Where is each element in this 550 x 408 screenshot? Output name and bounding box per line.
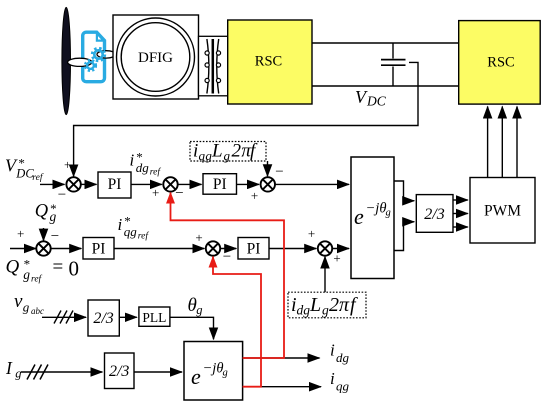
wire 23b to dq2 xyxy=(134,371,182,373)
svg-text:RSC: RSC xyxy=(255,54,282,70)
red feedback idg wire xyxy=(171,193,285,358)
wire PI1 to S2 xyxy=(131,183,162,185)
Vdc sense wire xyxy=(74,62,418,176)
wire Qg to S0 xyxy=(43,228,45,241)
slip-ring core bar xyxy=(212,39,215,94)
wire idg out xyxy=(243,357,320,359)
svg-text:PWM: PWM xyxy=(484,203,521,220)
wire Ig to 23b xyxy=(21,371,102,373)
dq inverse transform block xyxy=(351,157,394,279)
DFIG machine box xyxy=(113,15,199,99)
controller PI2 xyxy=(203,174,237,195)
feedforward box iqgLg2pif xyxy=(190,142,266,162)
slip-ring box xyxy=(199,36,228,96)
gearbox icon body xyxy=(83,32,105,81)
svg-text:−: − xyxy=(175,186,183,202)
svg-text:Q*g: Q*g xyxy=(35,201,57,224)
DFIG rotor circle xyxy=(121,23,190,92)
wire feedforward to S3 xyxy=(267,161,269,176)
wire dq to 23 block upper xyxy=(394,181,414,201)
wire 23a to PLL xyxy=(119,316,137,318)
svg-text:PI: PI xyxy=(213,176,227,193)
right brush arc xyxy=(217,39,219,94)
wire PI2 to S3 xyxy=(237,183,260,185)
summing junction S2 xyxy=(163,177,177,191)
block PWM xyxy=(470,178,535,244)
svg-text:−: − xyxy=(223,249,231,265)
svg-text:+: + xyxy=(195,230,202,245)
wire vgabc to 23a xyxy=(42,316,86,318)
svg-text:i*qgref: i*qgref xyxy=(118,214,150,242)
wire PI3 to Sq xyxy=(114,248,204,250)
transform block 2/3 b xyxy=(105,353,135,389)
svg-text:V*DCref: V*DCref xyxy=(5,156,44,184)
wire PLL to dq2 xyxy=(170,317,214,339)
dc bus bottom wire xyxy=(312,85,459,87)
svg-text:θg: θg xyxy=(188,295,203,317)
svg-text:Ig: Ig xyxy=(5,358,22,381)
feedforward box idgLg2pif xyxy=(288,292,366,318)
gearbox gears xyxy=(85,48,105,71)
summing junction S0 xyxy=(36,241,50,255)
low-speed shaft xyxy=(68,58,92,66)
wire S4 to dq transform xyxy=(332,248,349,250)
wire dq to 23 block lower xyxy=(394,222,414,251)
brush contacts right xyxy=(216,51,220,83)
brush contacts left xyxy=(205,51,209,83)
svg-text:2/3: 2/3 xyxy=(93,310,113,327)
svg-text:2/3: 2/3 xyxy=(424,206,444,223)
svg-text:+: + xyxy=(251,188,258,203)
wire feedforward to S4 xyxy=(324,257,326,293)
converter RSC right xyxy=(459,21,541,105)
summing junction S3 xyxy=(261,177,275,191)
wire PI4 to S4 xyxy=(269,248,316,250)
three-phase slash marks v xyxy=(54,311,73,324)
transform block 2/3 a xyxy=(88,300,119,336)
svg-text:+: + xyxy=(64,157,71,172)
svg-text:i*dgref: i*dgref xyxy=(130,150,162,178)
DFIG stator circle xyxy=(117,18,195,96)
PWM gate wires xyxy=(487,107,489,178)
summing junction S1 xyxy=(66,177,80,191)
turbine blade xyxy=(62,7,71,114)
block PLL xyxy=(139,307,170,326)
svg-text:RSC: RSC xyxy=(487,55,514,71)
svg-text:Q*gref=0: Q*gref=0 xyxy=(6,257,80,285)
controller PI1 xyxy=(98,172,131,198)
controller PI4 xyxy=(238,238,269,260)
svg-text:PI: PI xyxy=(247,241,261,258)
wire S3 to dq transform xyxy=(275,183,349,185)
svg-text:+: + xyxy=(308,226,315,241)
wire Vdcref to sum1 xyxy=(40,183,65,185)
high-speed shaft xyxy=(97,51,116,58)
wire Sq to PI4 xyxy=(220,248,236,250)
svg-text:+: + xyxy=(333,251,340,266)
svg-text:−: − xyxy=(51,229,59,245)
svg-text:PLL: PLL xyxy=(142,310,166,325)
svg-text:idg: idg xyxy=(330,341,350,366)
dc-link capacitor xyxy=(381,43,406,86)
svg-text:PI: PI xyxy=(92,241,106,258)
svg-text:VDC: VDC xyxy=(355,87,387,108)
left brush arc xyxy=(207,39,209,94)
svg-text:+: + xyxy=(152,185,159,200)
dq measurement transform block xyxy=(184,342,243,401)
svg-text:DFIG: DFIG xyxy=(138,50,173,66)
three-phase slash marks I xyxy=(27,365,48,380)
wire S1 to PI1 xyxy=(81,183,97,185)
wire iqg out xyxy=(243,386,321,388)
svg-text:−: − xyxy=(58,187,66,203)
svg-text:vgabc: vgabc xyxy=(14,291,44,316)
wire S2 to PI2 xyxy=(178,183,202,185)
svg-text:iqg: iqg xyxy=(330,369,350,394)
converter RSC left xyxy=(228,20,312,104)
summing junction S4 xyxy=(318,241,332,255)
transform block 2/3 right xyxy=(416,195,453,233)
red feedback iqg wire xyxy=(213,257,261,387)
wires 23 to PWM xyxy=(453,199,468,201)
dc bus top wire xyxy=(312,42,459,44)
controller PI3 xyxy=(83,238,114,260)
svg-text:−: − xyxy=(275,164,283,180)
svg-text:+: + xyxy=(17,226,24,241)
wire Qgref to S0 xyxy=(10,248,36,250)
summing junction Sq xyxy=(206,241,220,255)
svg-text:PI: PI xyxy=(108,176,122,193)
svg-text:2/3: 2/3 xyxy=(109,363,129,380)
wire S0 to PI3 xyxy=(51,248,81,250)
